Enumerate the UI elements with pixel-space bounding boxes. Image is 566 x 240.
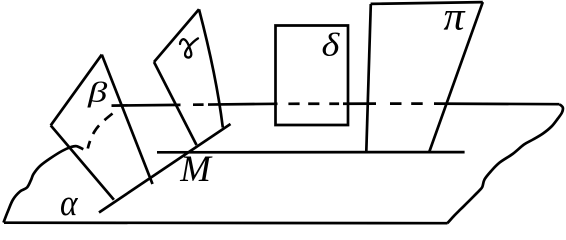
svg-text:M: M: [179, 149, 213, 190]
svg-text:δ: δ: [322, 27, 341, 63]
svg-text:β: β: [87, 77, 108, 109]
line M horizontal: [157, 151, 465, 154]
plane pi right edge: [429, 2, 482, 151]
plane beta upper-left edge: [51, 55, 102, 126]
alpha top edge dash inside pi 2: [411, 102, 423, 105]
plane alpha left wavy edge (visible): [4, 146, 84, 223]
alpha top edge dash inside pi 1: [390, 102, 402, 105]
plane alpha right wavy edge: [447, 104, 563, 223]
svg-text:π: π: [444, 0, 466, 39]
svg-text:α: α: [60, 183, 79, 224]
plane beta lower-left edge: [51, 125, 114, 199]
slanted base line through beta and gamma: [99, 124, 231, 213]
plane alpha left edge hidden behind beta (dashed): [88, 114, 113, 149]
plane beta right edge: [102, 55, 153, 184]
plane delta rectangle: [276, 26, 349, 126]
label gamma: [180, 38, 198, 57]
alpha top edge dash inside delta 3: [329, 102, 339, 105]
plane gamma upper-left edge: [154, 9, 199, 62]
alpha top edge solid segment 1: [112, 103, 181, 106]
plane pi left edge: [366, 4, 371, 152]
plane alpha bottom edge: [4, 221, 448, 224]
plane gamma right edge: [199, 9, 223, 127]
plane pi top edge: [371, 2, 483, 4]
alpha top edge solid segment 2: [208, 102, 278, 105]
plane gamma left edge: [154, 62, 197, 145]
alpha top edge dash (inside gamma): [193, 103, 204, 106]
alpha top edge solid segment 4: [434, 102, 560, 105]
alpha top edge solid segment 3: [343, 102, 376, 105]
alpha top edge dash inside delta 2: [308, 102, 319, 105]
alpha top edge dash inside delta 1: [288, 102, 299, 105]
